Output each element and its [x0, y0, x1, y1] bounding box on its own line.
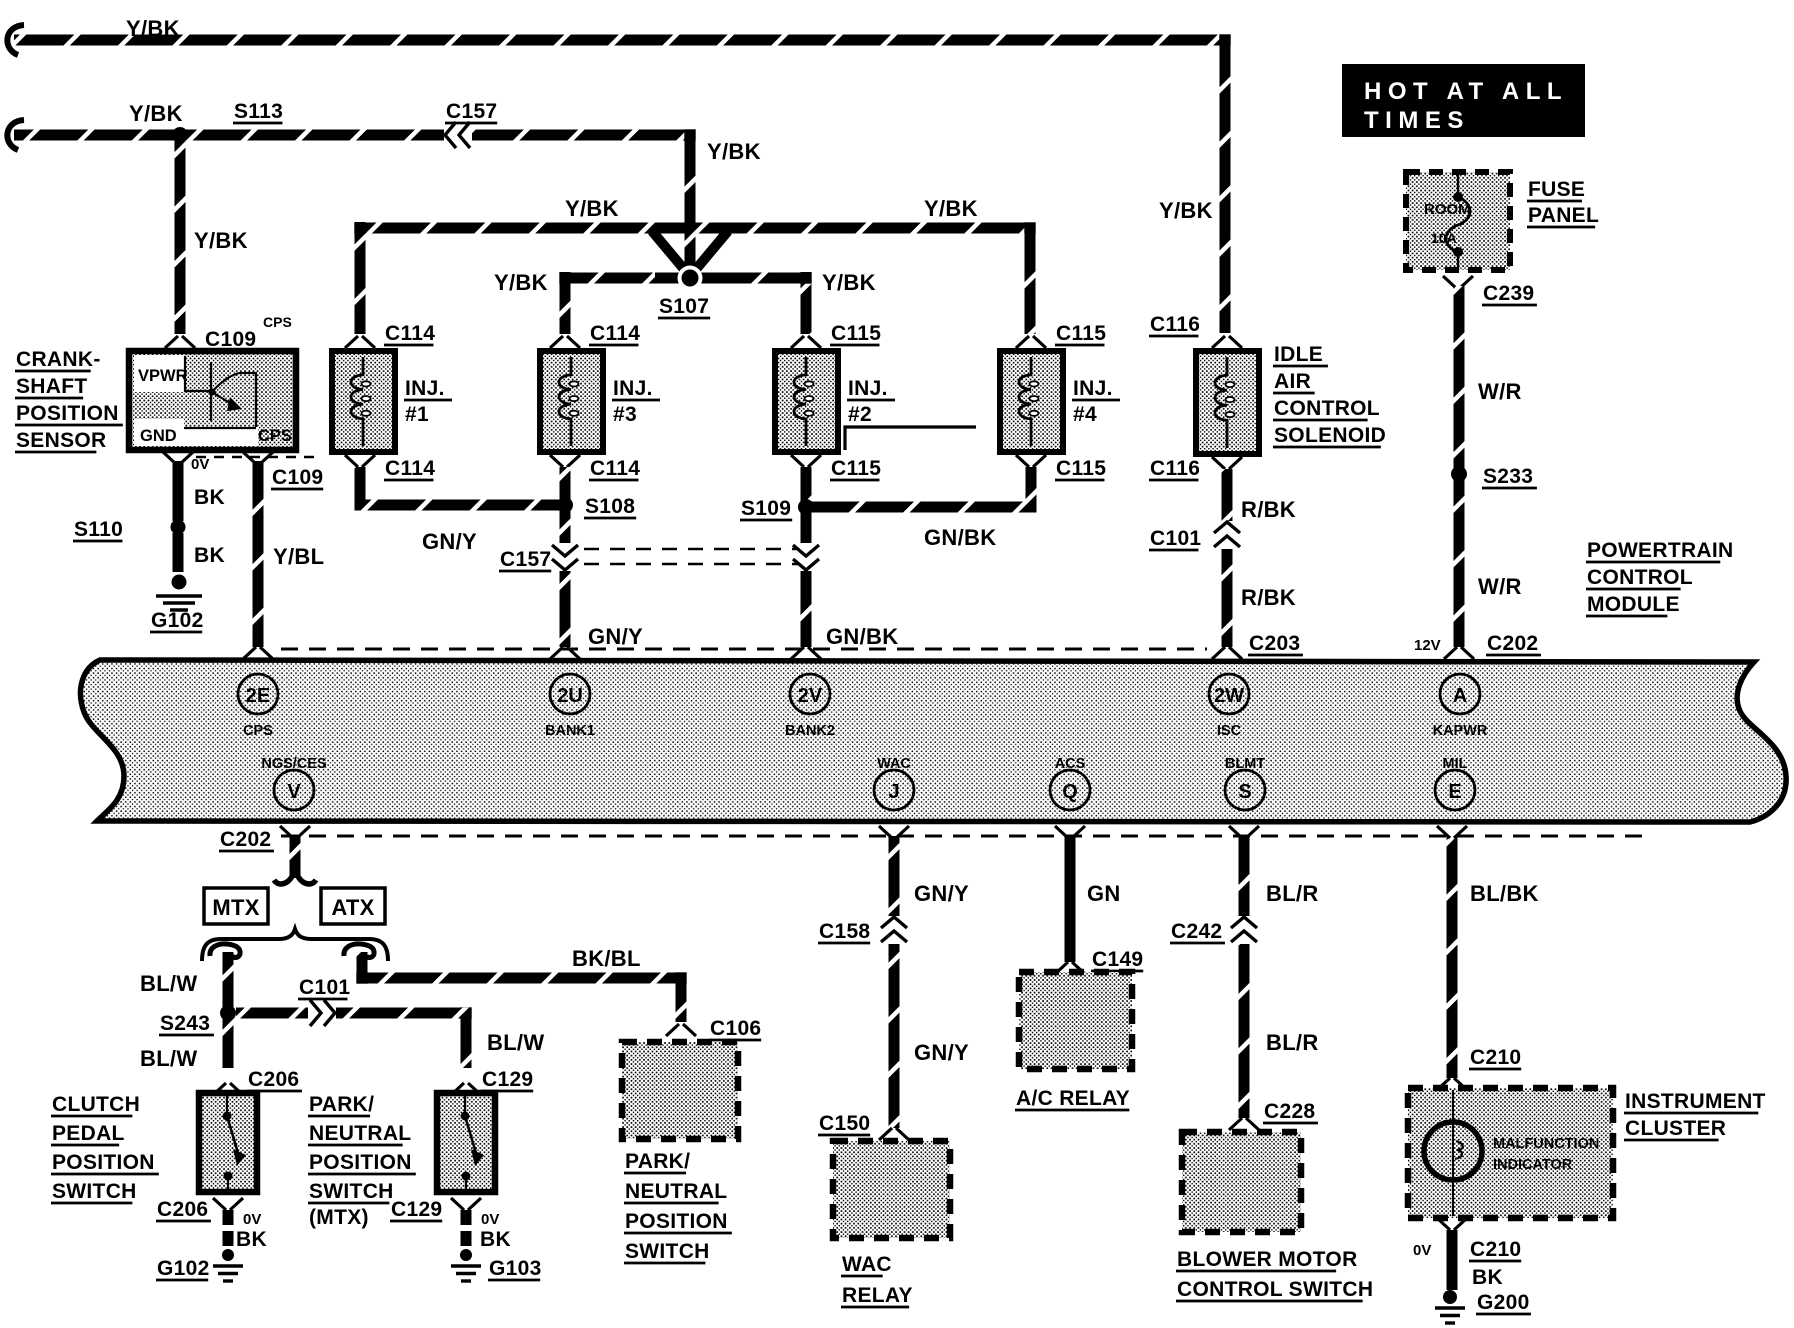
- connector fork injector 3 top: [550, 336, 580, 348]
- svg-text:C228: C228: [1264, 1100, 1315, 1123]
- svg-text:GN/Y: GN/Y: [422, 529, 477, 554]
- svg-text:#4: #4: [1073, 403, 1097, 426]
- pin V circle: [274, 770, 314, 810]
- connector C158 on GN/Y: [881, 916, 907, 944]
- svg-text:POSITION: POSITION: [309, 1151, 412, 1174]
- label RELAY wac: [841, 1284, 913, 1307]
- sensor internal white areas: [134, 355, 258, 446]
- label PARK/ atx: [624, 1150, 690, 1173]
- svg-text:G102: G102: [151, 609, 204, 632]
- label BL/W lower: [140, 1046, 197, 1071]
- svg-text:BL/BK: BL/BK: [1470, 881, 1539, 906]
- label S109: [740, 497, 792, 520]
- label GN/Y wac lower: [914, 1040, 969, 1065]
- svg-text:C114: C114: [385, 322, 435, 345]
- wire end hooks C202: [274, 866, 316, 884]
- svg-text:Q: Q: [1062, 781, 1078, 803]
- label CONTROL pcm: [1586, 566, 1693, 589]
- label S110: [73, 518, 123, 541]
- label BL/BK: [1470, 881, 1539, 906]
- injector 2 leader line: [845, 427, 976, 450]
- connector fork C150: [879, 1128, 909, 1140]
- wire BK cluster ground: [1447, 1230, 1458, 1290]
- label POSITION sensor: [15, 402, 123, 425]
- label GN/BK bus: [924, 525, 996, 550]
- connector fork C239: [1443, 276, 1473, 288]
- svg-text:0V: 0V: [1413, 1242, 1431, 1259]
- label BK sensor 1: [194, 486, 225, 509]
- pin A circle: [1440, 674, 1480, 714]
- label CRANK-: [15, 348, 101, 371]
- label SENSOR: [15, 429, 107, 452]
- svg-text:Y/BL: Y/BL: [273, 544, 324, 569]
- svg-text:CPS: CPS: [243, 723, 273, 739]
- pin label BANK1: [545, 723, 595, 739]
- svg-text:GN/BK: GN/BK: [826, 624, 898, 649]
- label C210 bottom: [1469, 1238, 1521, 1261]
- connector fork 2V band: [791, 647, 821, 659]
- svg-text:Y/BK: Y/BK: [194, 228, 248, 253]
- connector fork Q below band: [1055, 826, 1085, 838]
- label 0V cluster: [1413, 1242, 1431, 1259]
- label G103: [488, 1257, 542, 1280]
- wire GN/BK inj2 to PCM 2V: [801, 467, 812, 647]
- connector fork injector 4 top: [1016, 336, 1046, 348]
- svg-text:#3: #3: [613, 403, 637, 426]
- label CLUTCH: [51, 1093, 140, 1116]
- pin 2V circle: [790, 674, 830, 714]
- ground G102 dot upper: [172, 575, 187, 590]
- svg-text:PARK/: PARK/: [625, 1150, 690, 1173]
- label C239: [1482, 282, 1537, 305]
- wire BK clutch ground: [223, 1210, 234, 1246]
- svg-text:C129: C129: [391, 1198, 442, 1221]
- svg-text:POSITION: POSITION: [625, 1210, 728, 1233]
- MTX box: [204, 888, 268, 924]
- label SOLENOID: [1273, 424, 1386, 447]
- svg-text:Y/BK: Y/BK: [707, 139, 761, 164]
- connector fork C210 bottom: [1437, 1218, 1467, 1230]
- svg-text:C210: C210: [1470, 1238, 1521, 1261]
- svg-text:Y/BK: Y/BK: [822, 270, 876, 295]
- component blower motor control switch box: [1182, 1132, 1301, 1232]
- label S233: [1482, 465, 1537, 488]
- wire BL/W S243 to C129: [236, 1013, 466, 1068]
- connector fork C228: [1229, 1118, 1259, 1130]
- component injector 1 box: [332, 351, 395, 452]
- pin label CPS: [258, 427, 292, 445]
- svg-text:2U: 2U: [557, 685, 583, 707]
- svg-text:C109: C109: [205, 328, 256, 351]
- connector fork E below band: [1437, 826, 1467, 838]
- label C150: [818, 1112, 870, 1135]
- label Y/BK inner right: [822, 270, 876, 295]
- connector fork sensor CPS: [243, 452, 273, 464]
- pin S circle: [1225, 770, 1265, 810]
- label ROOM: [1424, 201, 1471, 218]
- svg-text:2V: 2V: [798, 685, 823, 707]
- svg-text:SWITCH: SWITCH: [309, 1180, 394, 1203]
- component fuse panel box: [1406, 172, 1510, 270]
- wire BK sensor ground: [173, 461, 184, 521]
- connector fork C129 top: [451, 1083, 481, 1095]
- label INDICATOR: [1493, 1157, 1573, 1173]
- svg-text:KAPWR: KAPWR: [1433, 723, 1488, 739]
- svg-text:C157: C157: [446, 100, 497, 123]
- svg-text:C106: C106: [710, 1017, 761, 1040]
- label C158: [818, 920, 870, 943]
- hook ATX wire: [344, 944, 374, 958]
- pin 2U circle: [550, 674, 590, 714]
- svg-text:PANEL: PANEL: [1528, 204, 1599, 227]
- label IDLE: [1273, 343, 1328, 366]
- wire BL/W PCM V to C202: [290, 836, 301, 878]
- svg-text:BK/BL: BK/BL: [572, 946, 641, 971]
- label C114 bottom inj 3: [589, 457, 640, 480]
- svg-text:POSITION: POSITION: [16, 402, 119, 425]
- label Y/BK top feed: [126, 16, 180, 41]
- component AC relay box: [1019, 972, 1132, 1069]
- label C206 top: [247, 1068, 302, 1091]
- svg-text:GN: GN: [1087, 881, 1121, 906]
- label S108: [584, 495, 636, 518]
- pin label BANK2: [785, 723, 835, 739]
- label CONTROL SWITCH: [1176, 1278, 1373, 1301]
- band dashed boundary bottom: [281, 835, 1653, 838]
- svg-text:C129: C129: [482, 1068, 533, 1091]
- label BK clutch: [236, 1228, 267, 1251]
- connector C109 dashed boundary: [196, 456, 322, 458]
- label INJ 1: [404, 377, 452, 426]
- connector fork IAC bottom: [1212, 457, 1242, 469]
- pin Q circle: [1050, 770, 1090, 810]
- pin label CPS: [243, 723, 273, 739]
- wire GN/Y inj1 to S108: [360, 467, 560, 505]
- svg-text:INJ.: INJ.: [1073, 377, 1113, 400]
- label CONTROL: [1273, 397, 1380, 420]
- connector fork IAC top: [1212, 336, 1242, 348]
- svg-text:C114: C114: [590, 457, 640, 480]
- connector C157 on GN/BK: [793, 543, 819, 571]
- wire GN PCM Q to AC relay: [1065, 836, 1076, 962]
- svg-text:C206: C206: [248, 1068, 299, 1091]
- svg-text:A/C RELAY: A/C RELAY: [1016, 1087, 1130, 1110]
- label C228: [1263, 1100, 1318, 1123]
- connector C157 (top feed): [444, 122, 472, 148]
- svg-text:BL/W: BL/W: [140, 1046, 197, 1071]
- svg-text:S109: S109: [741, 497, 791, 520]
- label C206 bottom: [156, 1198, 211, 1221]
- label GN/BK lower: [826, 624, 898, 649]
- wire Y/BK bus left drop: [355, 222, 366, 334]
- splice S107: [655, 250, 725, 291]
- injector 4 coil: [1019, 357, 1039, 446]
- svg-text:PARK/: PARK/: [309, 1093, 374, 1116]
- wire Y/BK second feed (S113 to S107): [7, 120, 690, 278]
- svg-text:MALFUNCTION: MALFUNCTION: [1493, 1136, 1599, 1152]
- connector fork sensor GND: [163, 452, 193, 464]
- label CPS superscript: [263, 314, 292, 330]
- pin label MIL: [1443, 756, 1468, 772]
- wire GN/Y PCM J to WAC relay: [889, 836, 900, 1128]
- svg-text:C239: C239: [1483, 282, 1534, 305]
- component WAC relay box: [833, 1141, 950, 1238]
- svg-text:G102: G102: [157, 1257, 210, 1280]
- svg-text:ACS: ACS: [1055, 756, 1086, 772]
- connector fork C202 below band: [280, 826, 310, 838]
- svg-text:S110: S110: [74, 518, 123, 541]
- connector fork sensor top: [165, 336, 195, 348]
- sensor internal symbol: [184, 356, 256, 428]
- component injector 4 box: [1000, 351, 1063, 452]
- svg-text:C109: C109: [272, 466, 323, 489]
- label C203: [1248, 632, 1303, 655]
- label 0V clutch: [243, 1211, 261, 1228]
- component clutch pedal position switch box: [199, 1093, 257, 1192]
- svg-text:MIL: MIL: [1443, 756, 1468, 772]
- svg-text:BLOWER MOTOR: BLOWER MOTOR: [1177, 1248, 1358, 1271]
- svg-text:C101: C101: [1150, 527, 1201, 550]
- label C129 bottom: [390, 1198, 442, 1221]
- svg-text:V: V: [287, 781, 301, 803]
- svg-text:C149: C149: [1092, 948, 1143, 971]
- label PEDAL: [51, 1122, 125, 1145]
- label INJ 3: [612, 377, 660, 426]
- label 10A: [1431, 230, 1457, 246]
- svg-text:IDLE: IDLE: [1274, 343, 1323, 366]
- label C149: [1091, 948, 1143, 971]
- svg-text:NEUTRAL: NEUTRAL: [309, 1122, 411, 1145]
- svg-text:#2: #2: [848, 403, 872, 426]
- ground G102 symbol upper: [156, 596, 202, 610]
- connector fork 2U band: [550, 647, 580, 659]
- connector fork S below band: [1229, 826, 1259, 838]
- label 0V sensor: [191, 456, 209, 473]
- svg-text:W/R: W/R: [1478, 574, 1522, 599]
- label INSTRUMENT: [1624, 1090, 1766, 1113]
- svg-text:C206: C206: [157, 1198, 208, 1221]
- label C106: [709, 1017, 761, 1040]
- svg-text:C114: C114: [590, 322, 640, 345]
- svg-text:INJ.: INJ.: [405, 377, 445, 400]
- svg-text:S243: S243: [160, 1012, 210, 1035]
- label BL/W right: [487, 1030, 544, 1055]
- svg-text:SOLENOID: SOLENOID: [1274, 424, 1386, 447]
- label BK cluster: [1472, 1266, 1503, 1289]
- label C202 right: [1486, 632, 1541, 655]
- hot at all times box: [1342, 64, 1585, 137]
- svg-text:MODULE: MODULE: [1587, 593, 1680, 616]
- label C157 mid: [499, 548, 551, 571]
- svg-text:0V: 0V: [481, 1211, 499, 1228]
- label G102 upper: [150, 609, 204, 632]
- label GN/Y bus: [422, 529, 477, 554]
- connector fork injector 2 top: [791, 336, 821, 348]
- svg-text:INDICATOR: INDICATOR: [1493, 1157, 1573, 1173]
- svg-text:CLUSTER: CLUSTER: [1625, 1117, 1726, 1140]
- label CLUSTER: [1624, 1117, 1726, 1140]
- injector 2 coil: [794, 357, 814, 446]
- label C115 bottom inj 2: [830, 457, 881, 480]
- svg-text:POSITION: POSITION: [52, 1151, 155, 1174]
- svg-text:CONTROL SWITCH: CONTROL SWITCH: [1177, 1278, 1373, 1301]
- svg-text:PEDAL: PEDAL: [52, 1122, 125, 1145]
- label Y/BK right vertical: [1159, 198, 1213, 223]
- svg-text:C202: C202: [1487, 632, 1538, 655]
- svg-text:CPS: CPS: [258, 427, 292, 445]
- label INJ 2: [847, 377, 895, 426]
- label S113: [233, 100, 283, 123]
- svg-text:WAC: WAC: [877, 756, 911, 772]
- ground G102 lower dot: [222, 1249, 234, 1261]
- wire GN/Y inj3 to PCM 2U: [560, 467, 571, 647]
- label BL/W upper: [140, 971, 197, 996]
- svg-text:FUSE: FUSE: [1528, 178, 1585, 201]
- svg-text:INJ.: INJ.: [848, 377, 888, 400]
- wire BL/BK PCM E to cluster: [1447, 836, 1458, 1078]
- ground G200 dot: [1443, 1290, 1457, 1304]
- svg-text:G200: G200: [1477, 1291, 1530, 1314]
- connector fork C149: [1055, 962, 1085, 974]
- svg-text:BK: BK: [480, 1228, 511, 1251]
- label SHAFT: [15, 375, 88, 398]
- svg-text:C242: C242: [1171, 920, 1222, 943]
- label Y/BK second feed: [129, 101, 183, 126]
- svg-text:J: J: [888, 781, 899, 803]
- svg-text:BK: BK: [194, 544, 225, 567]
- injector 1 coil: [351, 357, 371, 446]
- svg-text:WAC: WAC: [842, 1253, 892, 1276]
- connector fork injector 4 bottom: [1016, 455, 1046, 467]
- connector C242 on BL/R: [1231, 916, 1257, 944]
- connector fork J below band: [879, 826, 909, 838]
- svg-text:NEUTRAL: NEUTRAL: [625, 1180, 727, 1203]
- svg-text:12V: 12V: [1414, 637, 1441, 654]
- svg-text:BK: BK: [194, 486, 225, 509]
- svg-text:C150: C150: [819, 1112, 870, 1135]
- label GN/Y lower: [588, 624, 643, 649]
- wire R/BK IAC to PCM: [1222, 469, 1233, 647]
- svg-text:S: S: [1238, 781, 1251, 803]
- idle air solenoid coil: [1215, 357, 1235, 448]
- ground G102 lower symbol: [213, 1266, 243, 1281]
- pin label VPWR: [138, 367, 188, 385]
- pin label WAC: [877, 756, 911, 772]
- svg-text:BL/W: BL/W: [487, 1030, 544, 1055]
- wire BK/BL ATX to C106: [362, 952, 681, 1022]
- svg-text:A: A: [1453, 685, 1467, 707]
- wire Y/BK inner left drop: [560, 272, 571, 334]
- svg-text:NGS/CES: NGS/CES: [261, 756, 327, 772]
- splice S108: [557, 497, 573, 513]
- label BL/R upper: [1266, 881, 1319, 906]
- label (MTX): [309, 1206, 369, 1229]
- label C157 top: [445, 100, 497, 123]
- label C101 bottom: [298, 976, 350, 999]
- label Y/BK to sensor: [194, 228, 248, 253]
- fuse symbol: [1446, 175, 1470, 268]
- svg-text:HOT AT ALL: HOT AT ALL: [1364, 78, 1568, 105]
- label 0V pnp: [481, 1211, 499, 1228]
- label GN: [1087, 881, 1121, 906]
- connector fork C202 band top: [1444, 647, 1474, 659]
- label MODULE: [1586, 593, 1680, 616]
- splice S233: [1451, 466, 1467, 482]
- ATX box: [321, 888, 385, 924]
- label R/BK upper: [1241, 497, 1296, 522]
- connector fork 2E band: [243, 647, 273, 659]
- PNP MTX switch symbol: [461, 1093, 485, 1192]
- wire Y/BL sensor CPS to PCM 2E: [253, 461, 264, 647]
- svg-text:CPS: CPS: [263, 314, 292, 330]
- wire Y/BK injector bus: [360, 228, 1030, 334]
- svg-text:C202: C202: [220, 828, 271, 851]
- wire S107 left diagonal: [652, 231, 688, 274]
- label WAC relay: [841, 1253, 892, 1276]
- label Y/BK bus right: [924, 196, 978, 221]
- svg-text:C203: C203: [1249, 632, 1300, 655]
- label C115 top inj 4: [1055, 322, 1106, 345]
- connector fork C206 top: [213, 1083, 243, 1095]
- svg-text:BL/W: BL/W: [140, 971, 197, 996]
- component idle air control solenoid box: [1196, 351, 1259, 454]
- label Y/BL: [273, 544, 324, 569]
- component injector 3 box: [540, 351, 603, 452]
- svg-text:(MTX): (MTX): [309, 1206, 369, 1229]
- label C115 bottom inj 4: [1055, 457, 1106, 480]
- svg-text:C115: C115: [831, 322, 881, 345]
- wire Y/BK hot feed (top, to C116): [7, 25, 1225, 333]
- svg-text:0V: 0V: [243, 1211, 261, 1228]
- component park/neutral position switch ATX box: [622, 1042, 738, 1139]
- connector C157 on GN/Y: [552, 543, 578, 571]
- label Y/BK bus left: [565, 196, 619, 221]
- ground G103 dot: [460, 1249, 472, 1261]
- svg-text:S233: S233: [1483, 465, 1533, 488]
- svg-text:S108: S108: [585, 495, 635, 518]
- wire BL/R PCM S to blower switch: [1239, 836, 1250, 1118]
- label Y/BK inner left: [494, 270, 548, 295]
- clutch switch symbol: [223, 1093, 247, 1192]
- injector 3 coil: [559, 357, 579, 446]
- label W/R lower: [1478, 574, 1522, 599]
- wire Y/BK inner bus: [565, 273, 806, 284]
- pin 2E circle: [238, 674, 278, 714]
- svg-text:SENSOR: SENSOR: [16, 429, 107, 452]
- label C242: [1170, 920, 1225, 943]
- connector fork injector 2 bottom: [791, 455, 821, 467]
- label NEUTRAL atx: [624, 1180, 727, 1203]
- wire BL/W MTX to clutch switch: [223, 952, 234, 1068]
- svg-text:C114: C114: [385, 457, 435, 480]
- connector C101 on R/BK: [1214, 521, 1240, 549]
- connector fork injector 1 top: [345, 336, 375, 348]
- svg-text:GN/Y: GN/Y: [588, 624, 643, 649]
- svg-text:CONTROL: CONTROL: [1587, 566, 1693, 589]
- svg-text:C116: C116: [1150, 313, 1200, 336]
- label SWITCH mtx: [308, 1180, 394, 1203]
- svg-text:RELAY: RELAY: [842, 1284, 913, 1307]
- label GN/Y wac upper: [914, 881, 969, 906]
- label C129 top: [481, 1068, 533, 1091]
- label C101 right: [1149, 527, 1201, 550]
- label C109 bottom: [271, 466, 323, 489]
- label FUSE: [1527, 178, 1585, 201]
- label C116 bottom: [1149, 457, 1200, 480]
- pin J circle: [874, 770, 914, 810]
- label C202 below band: [219, 828, 274, 851]
- label G200: [1476, 1291, 1531, 1314]
